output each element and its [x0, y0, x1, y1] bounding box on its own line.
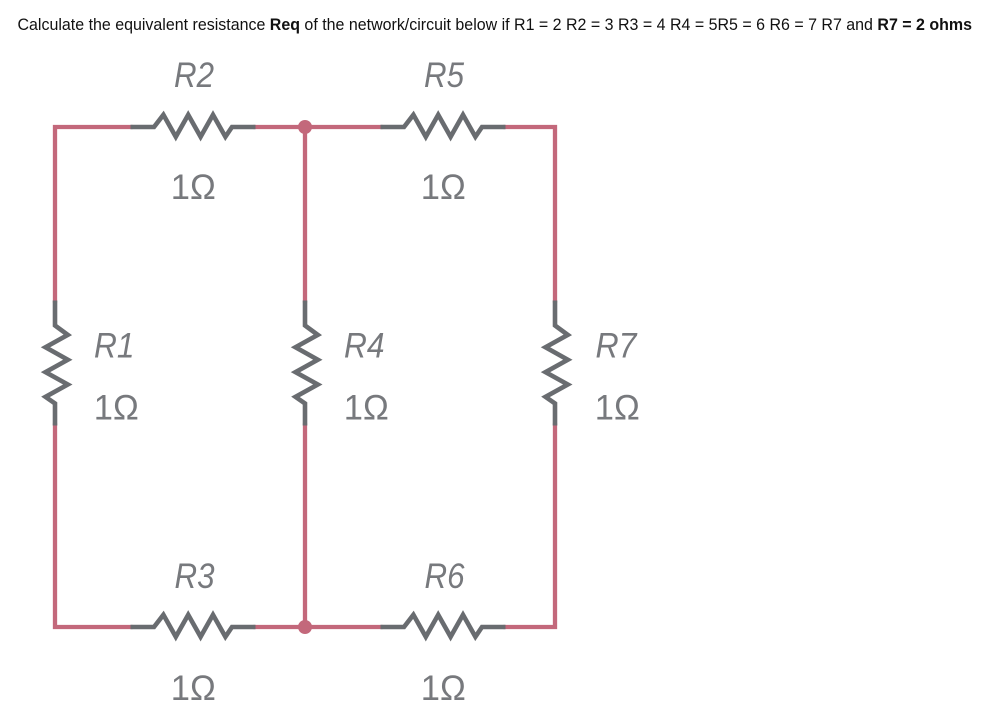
- svg-text:1Ω: 1Ω: [595, 388, 640, 428]
- svg-text:R2: R2: [174, 55, 214, 95]
- svg-text:R5: R5: [424, 55, 464, 95]
- svg-text:1Ω: 1Ω: [421, 668, 466, 708]
- svg-text:1Ω: 1Ω: [171, 167, 216, 207]
- svg-text:R3: R3: [175, 556, 215, 596]
- svg-text:R6: R6: [425, 556, 465, 596]
- svg-text:R7: R7: [596, 325, 638, 365]
- svg-text:1Ω: 1Ω: [421, 167, 466, 207]
- svg-text:1Ω: 1Ω: [94, 388, 139, 428]
- svg-text:1Ω: 1Ω: [344, 388, 389, 428]
- svg-text:1Ω: 1Ω: [171, 668, 216, 708]
- svg-text:Calculate the equivalent resis: Calculate the equivalent resistance Req …: [18, 15, 973, 34]
- svg-text:R1: R1: [94, 325, 135, 365]
- svg-text:R4: R4: [344, 325, 385, 365]
